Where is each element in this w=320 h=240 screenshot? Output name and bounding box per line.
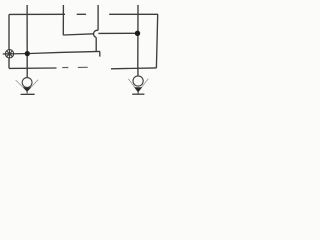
wire hop arc bbox=[94, 30, 99, 37]
wire right edge drop bbox=[156, 14, 157, 68]
check valve V2 seat arms bbox=[128, 79, 148, 92]
wire pilot horizontal right bbox=[98, 32, 137, 34]
wire mid-left vertical bbox=[62, 5, 64, 35]
check valve V1 seat wedge fill bbox=[23, 87, 31, 92]
check valve V1 seat arms bbox=[16, 80, 39, 92]
wire below lamp bbox=[8, 58, 10, 68]
wire left drop bbox=[8, 14, 10, 49]
wire top rail dash bbox=[77, 13, 86, 15]
wire bottom rail dash 1 bbox=[62, 67, 68, 69]
wire bottom rail dash 2 bbox=[78, 66, 88, 68]
check valve V1 apex stub bbox=[26, 91, 28, 93]
check valve V2 tank bar bbox=[132, 93, 144, 95]
node B junction dot bbox=[135, 31, 140, 36]
wire right vertical through node B bbox=[137, 5, 139, 68]
check valve V2 ball circle bbox=[133, 76, 143, 86]
lamp B1 circle bbox=[5, 50, 13, 58]
lamp B1 spokes bbox=[5, 50, 13, 58]
wire top rail solid right bbox=[109, 13, 158, 15]
wire vertical through node A bbox=[26, 5, 28, 68]
check valve V2 apex stub bbox=[137, 92, 139, 94]
wire hop vertical lower bbox=[95, 37, 97, 51]
check valve V1 ball circle bbox=[22, 78, 32, 88]
wire bottom rail solid left bbox=[9, 67, 57, 69]
wire L1 descender stub bbox=[99, 51, 101, 56]
node A junction dot bbox=[25, 51, 30, 56]
wire pilot horizontal left bbox=[63, 34, 94, 35]
wire mid rail L1 bbox=[3, 51, 100, 54]
wire bottom rail solid right bbox=[111, 67, 156, 70]
check valve V2 seat wedge fill bbox=[134, 87, 142, 92]
wire right pump stem bbox=[137, 68, 139, 76]
wire top rail solid left bbox=[9, 13, 65, 15]
wire left pump stem bbox=[26, 68, 28, 78]
check valve V1 tank bar bbox=[21, 93, 35, 95]
wire hop vertical upper bbox=[97, 5, 99, 30]
